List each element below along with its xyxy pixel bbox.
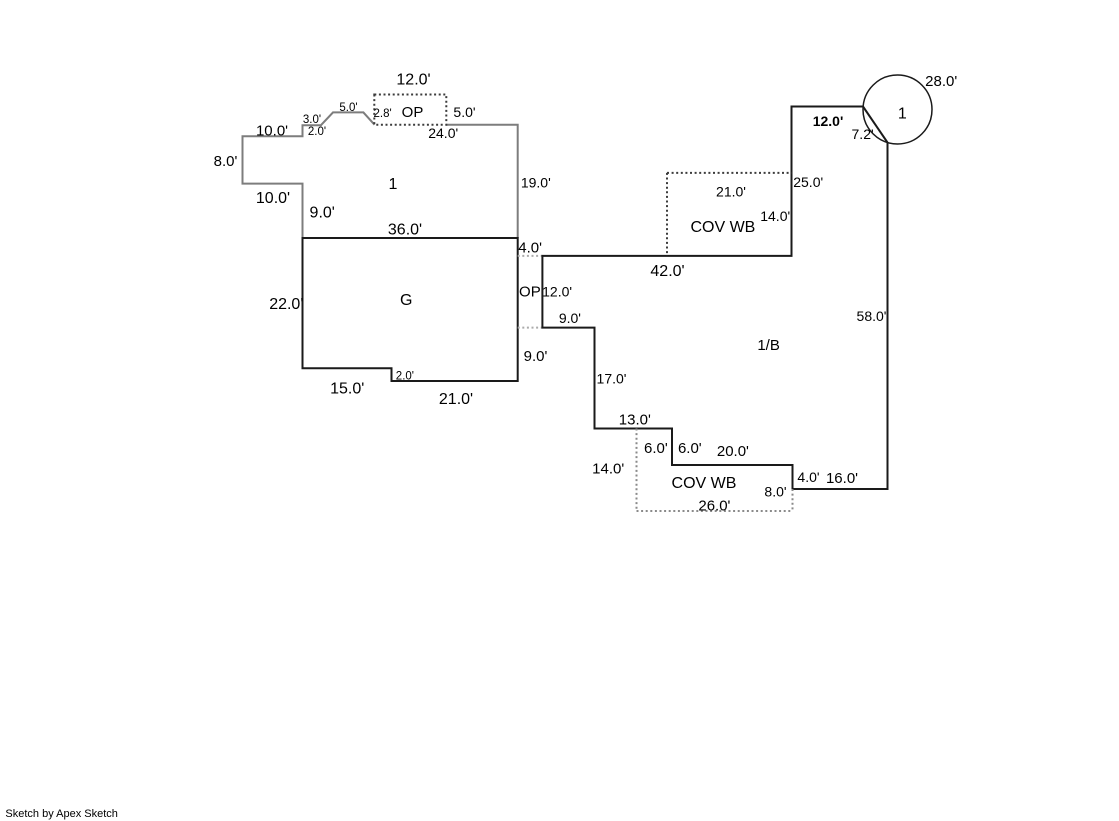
svg-text:26.0': 26.0'	[698, 498, 730, 515]
svg-text:COV WB: COV WB	[690, 219, 755, 236]
svg-text:9.0': 9.0'	[524, 348, 548, 365]
svg-text:9.0': 9.0'	[310, 205, 335, 222]
OP porch dashed rectangle (top)	[374, 95, 446, 125]
OP (middle) dashed bottom edge	[518, 327, 543, 329]
svg-text:19.0': 19.0'	[521, 175, 551, 191]
svg-text:14.0': 14.0'	[760, 208, 790, 224]
svg-text:42.0': 42.0'	[650, 263, 684, 280]
svg-text:OP: OP	[402, 104, 424, 121]
svg-text:2.8': 2.8'	[374, 108, 392, 120]
COV WB (bottom) dashed bottom edge	[637, 510, 793, 512]
svg-text:2.0': 2.0'	[396, 370, 414, 382]
svg-text:1/B: 1/B	[757, 337, 780, 354]
svg-text:6.0': 6.0'	[678, 440, 702, 457]
area 1/B outline (black, right structure)	[542, 107, 887, 490]
svg-text:7.2': 7.2'	[852, 126, 874, 142]
svg-text:12.0': 12.0'	[542, 284, 572, 300]
area 1 outline (gray walls, left building)	[243, 112, 518, 238]
svg-text:1: 1	[898, 105, 907, 122]
svg-text:21.0': 21.0'	[439, 391, 473, 408]
svg-text:9.0': 9.0'	[559, 310, 581, 326]
garage G outline (black)	[303, 238, 518, 381]
COV WB (top) dashed top edge	[667, 172, 792, 174]
COV WB (top) dashed left edge	[666, 173, 668, 256]
svg-text:2.0': 2.0'	[308, 126, 326, 138]
svg-text:5.0': 5.0'	[453, 104, 475, 120]
svg-text:G: G	[400, 292, 412, 309]
COV WB (bottom) dashed left edge	[636, 429, 638, 512]
svg-text:12.0': 12.0'	[813, 113, 844, 129]
svg-text:10.0': 10.0'	[256, 123, 288, 140]
svg-text:5.0': 5.0'	[339, 102, 357, 114]
7.2' diagonal chord over circle	[863, 107, 888, 143]
svg-text:16.0': 16.0'	[826, 470, 858, 487]
svg-text:25.0': 25.0'	[793, 174, 823, 190]
svg-text:8.0': 8.0'	[764, 483, 786, 499]
svg-text:13.0': 13.0'	[619, 411, 651, 428]
svg-text:20.0': 20.0'	[717, 443, 749, 460]
svg-text:28.0': 28.0'	[925, 73, 957, 90]
svg-text:14.0': 14.0'	[592, 461, 624, 478]
svg-text:3.0': 3.0'	[303, 114, 321, 126]
svg-text:21.0': 21.0'	[716, 184, 746, 200]
svg-text:10.0': 10.0'	[256, 190, 290, 207]
svg-text:6.0': 6.0'	[644, 440, 668, 457]
svg-text:12.0': 12.0'	[396, 71, 430, 88]
svg-text:17.0': 17.0'	[597, 371, 627, 387]
svg-text:4.0': 4.0'	[797, 469, 819, 485]
OP (middle) dashed top edge 4.0'	[518, 255, 543, 257]
svg-text:8.0': 8.0'	[214, 153, 238, 170]
svg-text:COV WB: COV WB	[672, 475, 737, 492]
svg-text:OP: OP	[519, 283, 541, 300]
svg-text:1: 1	[389, 176, 398, 193]
svg-text:4.0': 4.0'	[518, 240, 542, 257]
turret circle 1 (top right)	[863, 75, 932, 144]
COV WB (bottom) dashed right edge	[792, 489, 794, 511]
svg-text:15.0': 15.0'	[330, 380, 364, 397]
svg-text:22.0': 22.0'	[269, 296, 303, 313]
svg-text:24.0': 24.0'	[428, 125, 458, 141]
svg-text:Sketch by Apex Sketch: Sketch by Apex Sketch	[5, 808, 118, 820]
svg-text:36.0': 36.0'	[388, 221, 422, 238]
svg-text:58.0': 58.0'	[857, 308, 887, 324]
